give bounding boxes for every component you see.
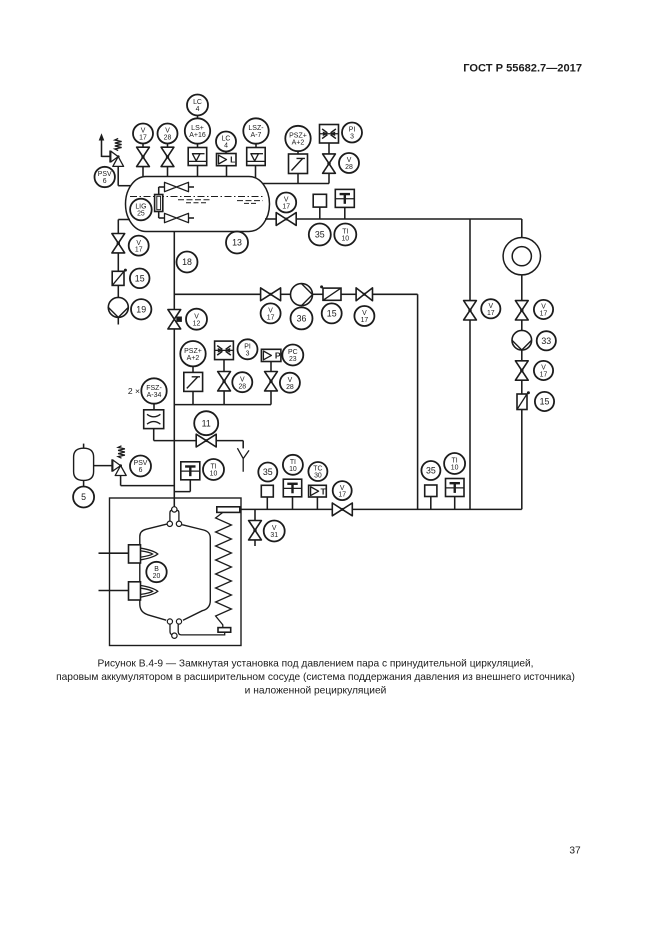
instrument TI 10 (feed) bbox=[203, 459, 224, 480]
pipe V31 branch bbox=[254, 509, 256, 520]
svg-text:17: 17 bbox=[135, 247, 143, 254]
wire LC4b to limiter box bbox=[225, 152, 227, 154]
vessel 13 steam accumulator drum bbox=[126, 177, 270, 232]
valve V17 (below pump 33) bbox=[515, 361, 528, 380]
svg-text:и наложенной рециркуляцией: и наложенной рециркуляцией bbox=[245, 686, 387, 697]
instrument PC 23 bbox=[282, 345, 303, 366]
instrument V 17 (steam outlet) bbox=[276, 193, 296, 213]
instrument PI 3 bbox=[342, 123, 362, 143]
label circle 35d bbox=[421, 461, 440, 480]
pipe main vertical lower bbox=[173, 329, 175, 507]
instrument LS+ A+16 bbox=[185, 118, 210, 143]
svg-text:Рисунок В.4-9 — Замкнутая уста: Рисунок В.4-9 — Замкнутая установка под … bbox=[97, 659, 533, 670]
valve V28 (PI line) bbox=[323, 154, 336, 173]
sensor box 35d bbox=[425, 485, 437, 509]
valve V28 (vessel top) bbox=[161, 147, 174, 166]
pipe filter to valve bbox=[341, 293, 356, 295]
pipe steam header bbox=[296, 218, 522, 220]
svg-text:6: 6 bbox=[139, 467, 143, 474]
wire LSZ to level switch bbox=[255, 144, 257, 148]
thermometer box TI10d bbox=[446, 479, 465, 497]
instrument V 17 (branch x470) bbox=[481, 299, 500, 318]
boiler bottom neck U-pipe bbox=[170, 624, 225, 635]
page number 37 bbox=[569, 846, 581, 857]
valve V17 (recirc right) bbox=[356, 288, 372, 301]
pressure limiter box P bbox=[261, 349, 281, 361]
svg-text:6: 6 bbox=[103, 178, 107, 185]
svg-text:28: 28 bbox=[238, 383, 246, 390]
svg-text:A-34: A-34 bbox=[147, 392, 162, 399]
svg-text:A+2: A+2 bbox=[292, 140, 305, 147]
valve V17 (boiler outlet) bbox=[332, 503, 352, 516]
label circle 5 bbox=[73, 487, 94, 508]
svg-text:PSZ+: PSZ+ bbox=[289, 133, 307, 140]
svg-text:13: 13 bbox=[232, 238, 242, 248]
safety valve PSV6 discharge arrow bbox=[99, 133, 110, 157]
internal valve upper bbox=[159, 182, 194, 191]
pump 19 bbox=[108, 297, 128, 317]
instrument PSZ+ A+2 bbox=[285, 126, 310, 151]
pipe recirculation row bbox=[174, 293, 260, 295]
pipe to pump 33 bbox=[521, 320, 523, 331]
wire damper to valve V28 bbox=[328, 143, 330, 154]
svg-text:12: 12 bbox=[193, 320, 201, 327]
pipe V31 drain stub bbox=[254, 540, 256, 546]
consumer symbol (double circle) bbox=[503, 238, 540, 275]
filter 15 (recirc) bbox=[320, 285, 341, 300]
safety valve PSV6 body bbox=[111, 151, 124, 166]
instrument V 28 (PI line) bbox=[339, 153, 359, 173]
label circle 35a bbox=[309, 224, 331, 246]
wire TI10d to pipe bbox=[454, 497, 456, 510]
wire FSZ to venturi bbox=[153, 404, 155, 410]
pipe filter to pump 19 bbox=[117, 285, 119, 297]
instrument PI 3 (middle) bbox=[238, 339, 258, 359]
pump 36 bbox=[291, 284, 313, 306]
pipe to filter 15 bbox=[521, 380, 523, 394]
svg-text:15: 15 bbox=[135, 274, 145, 284]
pipe steam header drop bbox=[521, 219, 523, 238]
pipe recirc to downcomer bbox=[373, 294, 418, 509]
pipe branch x470 down bbox=[469, 320, 471, 509]
electrode LS+ probe bbox=[194, 166, 202, 189]
instrument V 28 (middle PI) bbox=[232, 372, 252, 392]
valve 11 (blowdown) bbox=[196, 434, 216, 447]
svg-text:20: 20 bbox=[153, 573, 161, 580]
svg-text:4: 4 bbox=[196, 106, 200, 113]
burner 2 box bbox=[129, 582, 141, 600]
wire TI10c to pipe bbox=[292, 497, 294, 510]
safety valve PSV6b body bbox=[113, 460, 126, 476]
boiler bottom nozzle circles bbox=[167, 619, 181, 639]
wire box P to valve V28c bbox=[270, 362, 272, 372]
svg-text:19: 19 bbox=[136, 305, 146, 315]
svg-text:31: 31 bbox=[270, 532, 278, 539]
svg-text:17: 17 bbox=[282, 204, 290, 211]
instrument V 28 (vent valve) bbox=[158, 124, 178, 144]
instrument V 28 (middle PC) bbox=[280, 373, 300, 393]
gauge glass bracket bbox=[158, 187, 160, 218]
vessel 13 water hatching bbox=[178, 200, 263, 204]
instrument LSZ- A-7 bbox=[243, 118, 268, 143]
instrument LC 4 bbox=[187, 95, 208, 116]
burner 1 box bbox=[129, 545, 141, 563]
instrument V 31 bbox=[264, 521, 285, 542]
pipe PSV6b to main vertical bbox=[121, 476, 175, 486]
level switch LSZ box bbox=[247, 148, 266, 166]
instrument TI 10 (steam header) bbox=[334, 224, 356, 246]
instrument V 17 (right column) bbox=[534, 300, 553, 319]
thermometer box TI10a bbox=[335, 189, 354, 207]
svg-text:A+16: A+16 bbox=[189, 132, 206, 139]
wire PSZ+b to transducer bbox=[192, 366, 194, 372]
svg-text:паровым аккумулятором в расшир: паровым аккумулятором в расширительном с… bbox=[56, 672, 575, 683]
pipe vessel right outlet bbox=[265, 218, 276, 220]
wire TI10b to main vertical bbox=[174, 480, 190, 492]
label circle 13 bbox=[226, 232, 248, 254]
valve V17 (left drain) bbox=[112, 234, 125, 253]
wire box T to pipe bbox=[316, 497, 318, 509]
valve V31 bbox=[249, 521, 262, 540]
level switch LS+ box bbox=[188, 148, 207, 166]
instrument V 17 (vent valve) bbox=[133, 124, 153, 144]
valve V17 (recirc left) bbox=[261, 288, 281, 301]
instrument PSZ+ A+2 (middle) bbox=[180, 341, 205, 366]
pipe vessel to pressure instruments bbox=[263, 173, 330, 183]
valve V17 (steam outlet) bbox=[276, 213, 296, 226]
pressure transducer box (ramp) bbox=[289, 154, 308, 174]
instrument B 20 bbox=[146, 562, 166, 582]
svg-text:10: 10 bbox=[210, 471, 218, 478]
boiler enclosure box bbox=[110, 498, 242, 646]
wire V17 circle to valve bbox=[142, 144, 144, 148]
svg-text:A-7: A-7 bbox=[251, 132, 262, 139]
svg-text:36: 36 bbox=[297, 314, 307, 324]
svg-text:17: 17 bbox=[361, 317, 369, 324]
valve V12 actuator bbox=[176, 317, 182, 322]
electrode L probe bbox=[222, 166, 230, 209]
gauge glass LIG bbox=[155, 195, 163, 212]
wire LS+ to level switch bbox=[197, 144, 199, 148]
internal valve lower bbox=[159, 213, 194, 222]
pipe PSV6 to vessel bbox=[118, 166, 131, 185]
pipe pump33 down bbox=[521, 350, 523, 361]
svg-text:T: T bbox=[320, 486, 326, 496]
safety valve PSV6 spring bbox=[115, 139, 122, 151]
instrument V 17 (below pump 33) bbox=[534, 361, 553, 380]
safety valve PSV6b spring bbox=[118, 446, 125, 458]
pressure damper box bbox=[320, 125, 339, 144]
pipe instrument header bbox=[174, 404, 271, 406]
pipe to pump 36 bbox=[281, 293, 291, 295]
pipe main vertical from vessel bbox=[173, 232, 175, 310]
pipe boiler outlet header bbox=[230, 508, 522, 510]
instrument TC 30 bbox=[308, 462, 327, 481]
label circle 19 bbox=[131, 299, 151, 319]
burner 1 flame bbox=[141, 548, 158, 560]
svg-text:3: 3 bbox=[246, 350, 250, 357]
boiler vessel B20 outline bbox=[140, 524, 211, 620]
svg-text:10: 10 bbox=[451, 465, 459, 472]
coil bottom flag bbox=[218, 628, 231, 633]
svg-text:25: 25 bbox=[137, 211, 145, 218]
instrument LIG 25 bbox=[130, 199, 152, 221]
svg-text:35: 35 bbox=[426, 466, 436, 476]
svg-text:LS+: LS+ bbox=[191, 125, 204, 132]
svg-text:35: 35 bbox=[263, 467, 273, 477]
label 2x multiplier bbox=[128, 386, 140, 396]
svg-text:35: 35 bbox=[315, 230, 325, 240]
thermometer box TI10c bbox=[283, 479, 301, 497]
wire PSZ+ to transducer bbox=[297, 151, 299, 154]
pipe venturi to blowdown line bbox=[154, 429, 197, 441]
pipe drain to filter bbox=[117, 253, 119, 271]
valve V17 (branch x470) bbox=[464, 301, 477, 320]
label circle 11 bbox=[194, 411, 218, 435]
electrode LSZ probe bbox=[251, 166, 259, 218]
pump 33 bbox=[512, 330, 532, 350]
label circle 36 bbox=[291, 307, 313, 329]
pipe pump19 stub bbox=[117, 317, 119, 324]
svg-text:10: 10 bbox=[289, 466, 297, 473]
svg-text:11: 11 bbox=[202, 418, 211, 428]
svg-text:A+2: A+2 bbox=[187, 355, 200, 362]
wire valve V28c to header bbox=[270, 391, 272, 405]
sensor box 35a bbox=[313, 194, 326, 219]
pipe consumer down bbox=[521, 275, 523, 301]
header GOST number bbox=[463, 63, 582, 75]
svg-text:4: 4 bbox=[224, 143, 228, 150]
svg-text:17: 17 bbox=[267, 315, 275, 322]
flow venturi box bbox=[144, 410, 164, 429]
pressure damper box (middle) bbox=[215, 341, 234, 360]
valve V17 (right column) bbox=[515, 301, 528, 320]
burner feed line 1 bbox=[99, 552, 129, 554]
svg-text:L: L bbox=[230, 155, 235, 165]
svg-text:2 ×: 2 × bbox=[128, 386, 140, 396]
pipe vessel left drain bbox=[118, 220, 130, 234]
svg-text:30: 30 bbox=[314, 473, 322, 480]
label circle 15 (left drain) bbox=[130, 269, 150, 289]
pipe tank to PSV6b bbox=[94, 465, 112, 467]
instrument V 17 (recirc right) bbox=[354, 306, 374, 326]
safety valve PSV6b flange bbox=[111, 459, 113, 471]
svg-text:15: 15 bbox=[540, 397, 550, 407]
pipe V17 valve to vessel bbox=[142, 167, 144, 177]
wire valve V28b to header bbox=[223, 391, 225, 405]
svg-text:17: 17 bbox=[139, 135, 147, 142]
svg-text:5: 5 bbox=[81, 492, 86, 502]
valve V28 (middle PI) bbox=[218, 372, 231, 391]
instrument V 17 (recirc left) bbox=[261, 303, 281, 323]
svg-text:15: 15 bbox=[327, 309, 337, 319]
instrument V 12 bbox=[186, 309, 207, 330]
svg-text:17: 17 bbox=[540, 311, 548, 318]
label circle 18 bbox=[177, 252, 198, 273]
valve V12 bbox=[168, 310, 181, 329]
filter 15 (right column) bbox=[517, 391, 530, 409]
pipe V28 valve to vessel bbox=[167, 167, 169, 177]
svg-text:37: 37 bbox=[569, 846, 581, 857]
svg-text:28: 28 bbox=[286, 384, 294, 391]
instrument V 17 (left drain) bbox=[129, 236, 149, 256]
wire damper to valve V28b bbox=[223, 360, 225, 372]
boiler top neck bbox=[170, 510, 179, 521]
svg-text:ГОСТ Р 55682.7—2017: ГОСТ Р 55682.7—2017 bbox=[463, 63, 582, 75]
pipe right column down bbox=[521, 410, 523, 510]
coil top flag bbox=[217, 507, 240, 513]
label circle 15 (recirc) bbox=[322, 303, 342, 323]
pressure transducer box (middle) bbox=[184, 372, 203, 391]
label circle 35c bbox=[258, 463, 277, 482]
filter 15 (left drain) bbox=[112, 269, 127, 286]
instrument LC 4 (second) bbox=[216, 132, 236, 152]
caption line 1 bbox=[97, 659, 533, 670]
expansion tank 5 bbox=[74, 444, 94, 487]
svg-text:LSZ-: LSZ- bbox=[248, 125, 264, 132]
safety valve PSV6 flange bbox=[109, 151, 111, 163]
svg-text:3: 3 bbox=[350, 134, 354, 141]
heating coil zigzag bbox=[216, 512, 232, 627]
caption line 2 bbox=[56, 672, 575, 683]
wire V28 circle to valve bbox=[167, 144, 169, 148]
wire transducer to header bbox=[192, 391, 194, 404]
instrument TI 10 (boiler outlet) bbox=[283, 455, 303, 475]
label circle 15 (right column) bbox=[535, 392, 554, 411]
instrument V 17 (boiler outlet) bbox=[333, 481, 352, 500]
svg-text:17: 17 bbox=[338, 492, 346, 499]
svg-text:10: 10 bbox=[341, 236, 349, 243]
svg-text:23: 23 bbox=[289, 356, 297, 363]
pipe blowdown to funnel bbox=[216, 441, 243, 449]
svg-text:18: 18 bbox=[182, 257, 192, 267]
instrument TI 10 (right) bbox=[444, 453, 465, 474]
drain funnel Y bbox=[237, 448, 249, 472]
label circle 33 bbox=[537, 331, 556, 350]
svg-text:28: 28 bbox=[345, 164, 353, 171]
instrument PSV 6 (tank) bbox=[130, 456, 151, 477]
svg-text:FSZ-: FSZ- bbox=[146, 385, 162, 392]
thermometer box TI10b bbox=[181, 462, 200, 480]
svg-text:PSZ+: PSZ+ bbox=[184, 348, 202, 355]
temperature limiter box T bbox=[309, 485, 327, 497]
instrument FSZ- A-34 bbox=[141, 378, 166, 403]
pipe branch x470 bbox=[469, 219, 471, 301]
level limiter box L bbox=[217, 154, 237, 166]
wire LC4 to LS+ bbox=[197, 116, 199, 119]
valve V17 (vessel top) bbox=[137, 147, 150, 166]
burner 2 flame bbox=[141, 586, 158, 598]
instrument PSV 6 bbox=[95, 167, 115, 187]
svg-text:17: 17 bbox=[540, 372, 548, 379]
boiler top nozzle circles bbox=[167, 507, 182, 527]
burner feed line 2 bbox=[99, 590, 129, 592]
caption line 3 bbox=[245, 686, 387, 697]
svg-text:17: 17 bbox=[487, 310, 495, 317]
svg-text:33: 33 bbox=[541, 336, 551, 346]
sensor box 35c bbox=[261, 485, 273, 509]
wire TI10a to pipe bbox=[344, 207, 346, 219]
svg-text:28: 28 bbox=[164, 135, 172, 142]
valve V28 (middle PC) bbox=[265, 372, 278, 391]
vessel 13 water level line bbox=[130, 196, 264, 198]
pipe pump36 to filter bbox=[313, 293, 324, 295]
svg-text:P: P bbox=[275, 351, 281, 361]
